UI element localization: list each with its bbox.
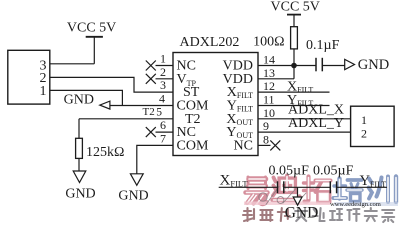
svg-text:100Ω: 100Ω [253, 35, 284, 50]
watermark [243, 176, 398, 223]
wire X_FILT pin12 [258, 79, 330, 94]
capacitor C2 0.05µF [269, 163, 310, 193]
svg-text:www.eedesign.com: www.eedesign.com [330, 201, 381, 208]
svg-text:GND: GND [64, 93, 94, 108]
svg-text:13: 13 [263, 66, 275, 80]
big char 4 (blue) [334, 179, 363, 202]
connector J2 [351, 106, 395, 146]
svg-text:0.05µF: 0.05µF [313, 163, 354, 178]
power VCC 5V (right) [271, 0, 320, 27]
wire C1 to ground [323, 65, 345, 67]
svg-text:10: 10 [263, 106, 275, 120]
big char 1 (red) [246, 177, 268, 204]
node junction dot [291, 63, 297, 69]
watermark scribbles [259, 187, 306, 205]
svg-text:T2: T2 [143, 106, 155, 118]
svg-text:0.1µF: 0.1µF [306, 38, 340, 53]
watermark slogan line [243, 208, 290, 221]
ground GND (COM row) [64, 93, 110, 110]
net label X_FILT (bottom) [219, 173, 278, 189]
big char 3 (red) [304, 177, 331, 202]
ground GND (bottom) [285, 187, 319, 221]
svg-text:2: 2 [160, 65, 166, 79]
svg-text:12: 12 [263, 79, 275, 93]
wire ADXL_X pin10 [258, 103, 351, 119]
U1 pin8 stub [258, 144, 271, 146]
U1 pin6 stub [156, 131, 174, 133]
svg-text:NC: NC [234, 139, 253, 154]
svg-text:1: 1 [160, 52, 166, 66]
svg-text:GND: GND [285, 204, 319, 221]
no-connect X pin1 [146, 61, 156, 71]
svg-text:GND: GND [118, 189, 148, 204]
wire Y_FILT pin11 [258, 93, 330, 108]
U1 right pin names [223, 59, 253, 154]
watermark white inner streaks [247, 177, 397, 203]
U1 left pin names [177, 59, 209, 154]
svg-text:3: 3 [160, 78, 166, 92]
resistor R1 100Ω [253, 27, 297, 79]
big char 5 (blue) [369, 177, 397, 203]
svg-text:VCC 5V: VCC 5V [271, 0, 320, 15]
wire T2 net [79, 106, 173, 138]
op-amp U1 ADXL202 body [173, 35, 258, 156]
svg-text:COM: COM [177, 139, 209, 154]
svg-text:ADXL202: ADXL202 [180, 35, 240, 50]
svg-text:9: 9 [263, 119, 269, 133]
capacitor C1 0.1µF [306, 38, 340, 72]
ground GND (top right) [345, 57, 390, 73]
resistor R2 125kΩ [76, 138, 125, 171]
connector J1 [8, 50, 50, 104]
svg-text:5: 5 [156, 106, 162, 118]
wire C2 to C3 [284, 186, 330, 188]
svg-text:7: 7 [160, 131, 166, 145]
no-connect X pin6 [146, 127, 156, 137]
wire J1 pin2 to ST [50, 77, 173, 92]
wire VDD pin13 [258, 78, 294, 80]
U1 pin1 stub [156, 65, 174, 67]
capacitor C3 0.05µF [313, 163, 354, 193]
wire U1 pin7 COM to ground [137, 145, 173, 173]
big char 2 (red) [273, 176, 300, 201]
no-connect X pin8 [270, 140, 280, 150]
wire J1 pin3 to VCC [50, 63, 95, 65]
wire J1 pin1 to COM net [50, 90, 123, 105]
svg-text:6: 6 [160, 118, 166, 132]
no-connect X pin2 [146, 74, 156, 84]
U1 right pin numbers [263, 53, 275, 147]
svg-text:11: 11 [263, 93, 275, 107]
power VCC 5V (left) [67, 21, 116, 64]
svg-text:125kΩ: 125kΩ [86, 145, 124, 160]
svg-text:GND: GND [65, 187, 95, 202]
svg-text:1: 1 [40, 84, 47, 99]
svg-text:0.05µF: 0.05µF [269, 163, 310, 178]
wire VDD pin14 [258, 65, 316, 67]
ground GND (pin7) [118, 174, 148, 204]
U1 left pin numbers [156, 52, 166, 146]
svg-text:4: 4 [159, 92, 165, 106]
svg-text:1: 1 [361, 113, 367, 127]
svg-text:14: 14 [263, 53, 275, 67]
svg-text:8: 8 [263, 132, 269, 146]
wire C3 to Y_FILT [337, 186, 387, 188]
svg-text:YFILT: YFILT [360, 173, 387, 189]
svg-text:VCC 5V: VCC 5V [67, 21, 116, 36]
wire ADXL_Y pin9 [258, 116, 351, 132]
svg-text:GND: GND [358, 57, 389, 73]
wire COM net [110, 105, 173, 107]
watermark reflection bar [244, 202, 330, 206]
svg-text:2: 2 [361, 127, 367, 141]
U1 pin2 stub [156, 78, 174, 80]
svg-text:ADXL_Y: ADXL_Y [288, 116, 344, 131]
ground GND (under 125k) [65, 171, 95, 202]
svg-text:XFILT: XFILT [220, 173, 249, 189]
